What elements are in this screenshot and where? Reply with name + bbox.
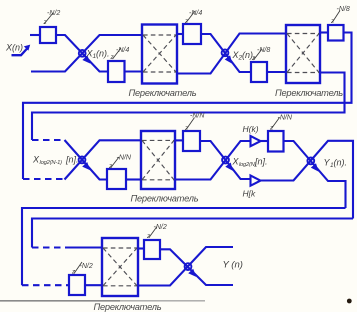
- wire: upper input to crossing node N3 (down-right into D6): [65, 140, 108, 180]
- wire: U3 lower output to crossing node N4 (up-right into amp H[k] upper): [175, 141, 251, 180]
- wire: D1 output to crossing node N1 (down-right to D2): [56, 35, 108, 72]
- delay element D2: z^{-N/4} box: [108, 61, 125, 82]
- commutator switch U4 (Переключатель): [102, 238, 138, 296]
- svg-text:Переключатель: Переключатель: [129, 88, 197, 98]
- arrowhead after node N4: [225, 163, 233, 171]
- svg-text:-N/4: -N/4: [116, 47, 129, 54]
- svg-text:(n).: (n).: [334, 158, 348, 168]
- svg-text:-N/N: -N/N: [117, 155, 132, 162]
- wire: U3 upper output into delay D7: [175, 139, 183, 141]
- svg-text:-N/4: -N/4: [189, 10, 202, 17]
- svg-text:-N/N: -N/N: [278, 115, 293, 122]
- multiplier amp A2: H[k] lower triangle: [251, 176, 261, 186]
- svg-text:[n].: [n].: [254, 157, 268, 167]
- wire: D4 output into commutator U2 lower port: [267, 71, 286, 73]
- svg-text:Переключатель: Переключатель: [275, 88, 343, 98]
- wire: U2 upper output into delay D5: [320, 31, 328, 33]
- wire: amp A1 output into delay D8: [261, 140, 269, 142]
- wire: dashed segment of bus B feeding middle-row upper input: [32, 139, 65, 141]
- svg-text:-N/2: -N/2: [154, 224, 167, 231]
- node N2: crossing with circle: [222, 49, 229, 56]
- wire: D6 output into commutator U3 lower port: [126, 178, 141, 180]
- bus D: upper feedback bus from N5 wrap to bottom-row upper input: [32, 219, 353, 248]
- svg-text:X(n): X(n): [5, 43, 23, 53]
- svg-text:Y (n): Y (n): [223, 260, 243, 271]
- wire: D8 output to crossing node N5 (down-right): [284, 141, 346, 208]
- commutator switch U2 (Переключатель): [286, 25, 320, 83]
- wire: U2 lower output wraps right and down to feedback bus B: [32, 73, 345, 141]
- svg-text:log2(N): log2(N): [239, 162, 257, 168]
- node N1: crossing with circle: [79, 50, 86, 57]
- delay element D1: z^{-N/2} box: [40, 27, 56, 43]
- arrowhead after node N3: [82, 162, 90, 170]
- node N3: crossing with circle: [79, 157, 86, 164]
- wire: X[n] upper input into delay D1: [30, 34, 40, 36]
- svg-text:-N/2: -N/2: [80, 263, 93, 270]
- scan artifact: dark rule at bottom left: [0, 300, 120, 302]
- wire: D10 output to crossing node N6 (down-right to Y output lower): [160, 249, 233, 285]
- commutator switch U3 (Переключатель): [141, 131, 175, 189]
- svg-text:log2(N-1): log2(N-1): [40, 160, 63, 166]
- delay element D4: z^{-N/8} box: [251, 62, 267, 82]
- arrowhead after node N1: [82, 55, 90, 63]
- delay element D8: z^{-N/N} box: [268, 131, 284, 152]
- delay element D10: z^{-N/2} box: [144, 240, 160, 259]
- svg-text:Переключатель: Переключатель: [131, 194, 199, 204]
- svg-text:(n).: (n).: [242, 50, 256, 60]
- wire: U1 upper output into delay D3: [177, 33, 183, 35]
- wire: D2 output into commutator U1 lower port: [125, 70, 143, 72]
- wire/bus: D5 output wraps right and down to feedback bus A: [23, 33, 352, 180]
- node N5: crossing with circle: [307, 158, 314, 165]
- svg-text:H(k): H(k): [243, 124, 259, 134]
- wire: amp A2 output to crossing node N5 (up-right) then right bus down: [261, 141, 354, 219]
- bus C: lower feedback bus from N5 down-right wrap to bottom-row lower input: [22, 208, 346, 285]
- commutator switch U1 (Переключатель): [142, 25, 177, 84]
- scan artifact: dark dot bottom right: [347, 299, 352, 304]
- wire: dashed segment of bus A feeding middle-row lower input: [23, 178, 65, 180]
- delay element D3: z^{-N/4} box: [183, 24, 201, 44]
- delay element D5: z^{-N/8} box: [328, 25, 344, 41]
- svg-text:(n).: (n).: [96, 49, 110, 59]
- wire: U1 lower output to crossing node N2 (up-right into U2): [177, 34, 286, 74]
- wire: U4 lower output to crossing node N6 (up-right to Y output upper): [138, 247, 233, 286]
- wire: dashed segment of bus C: [22, 284, 69, 286]
- arrowhead after node N2: [225, 55, 233, 63]
- multiplier amp A1: H[k] upper triangle: [251, 136, 261, 146]
- wire: lower input to crossing node N3 (up-right into U3): [65, 140, 142, 179]
- delay element D6: z^{-N/N} box: [107, 169, 126, 189]
- wire: dashed segment of bus D: [32, 246, 66, 248]
- node N6: crossing with circle: [185, 263, 192, 270]
- arrowhead after node N5: [311, 163, 319, 171]
- arrowhead after node N6: [188, 269, 196, 277]
- node N4: crossing with circle: [222, 157, 229, 164]
- svg-text:H[k: H[k: [243, 189, 257, 199]
- svg-text:-N/8: -N/8: [257, 47, 270, 54]
- wire: lower input rail to crossing node N1 (up-right into U1): [31, 35, 142, 72]
- wire: D9 output into commutator U4 lower port: [85, 284, 102, 286]
- wire: D3 output to crossing node N2 (down-right into D4): [201, 34, 251, 72]
- svg-text:[n].: [n].: [65, 155, 79, 165]
- delay element D9: z^{-N/2} box: [69, 275, 85, 295]
- wire: solid continuation of bus D into commutator U4 upper port: [66, 246, 102, 248]
- svg-text:-N/N: -N/N: [190, 113, 205, 120]
- svg-text:-N/8: -N/8: [337, 6, 350, 13]
- svg-text:-N/2: -N/2: [47, 10, 60, 17]
- wire: U4 upper output into delay D10: [138, 247, 144, 249]
- wire: D7 output to crossing node N4 (down-right into amp H[k] lower): [200, 141, 251, 179]
- svg-text:Переключатель: Переключатель: [94, 302, 162, 312]
- delay element D7: z^{-N/N} box: [183, 131, 200, 151]
